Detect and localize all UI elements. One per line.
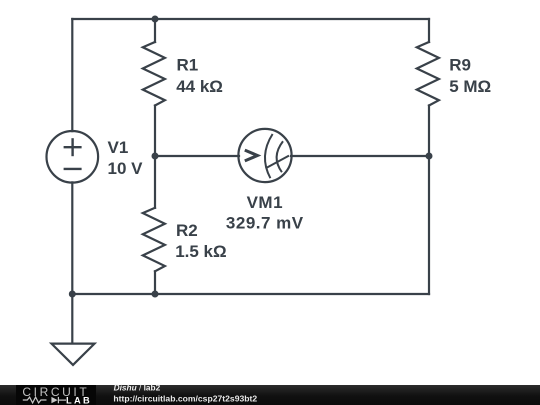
svg-text:VM1: VM1 (247, 193, 283, 212)
svg-text:329.7 mV: 329.7 mV (226, 214, 304, 233)
svg-text:44 kΩ: 44 kΩ (176, 77, 223, 96)
svg-text:V1: V1 (108, 138, 129, 157)
svg-text:R1: R1 (177, 56, 199, 75)
svg-text:Dishu / lab2: Dishu / lab2 (114, 382, 161, 392)
svg-text:R2: R2 (176, 221, 198, 240)
svg-text:5 MΩ: 5 MΩ (449, 77, 491, 96)
svg-text:LAB: LAB (66, 396, 92, 405)
svg-text:1.5 kΩ: 1.5 kΩ (175, 242, 226, 261)
svg-text:http://circuitlab.com/csp27t2s: http://circuitlab.com/csp27t2s93bt2 (113, 393, 257, 403)
svg-text:R9: R9 (449, 56, 471, 75)
svg-text:10 V: 10 V (108, 159, 144, 178)
